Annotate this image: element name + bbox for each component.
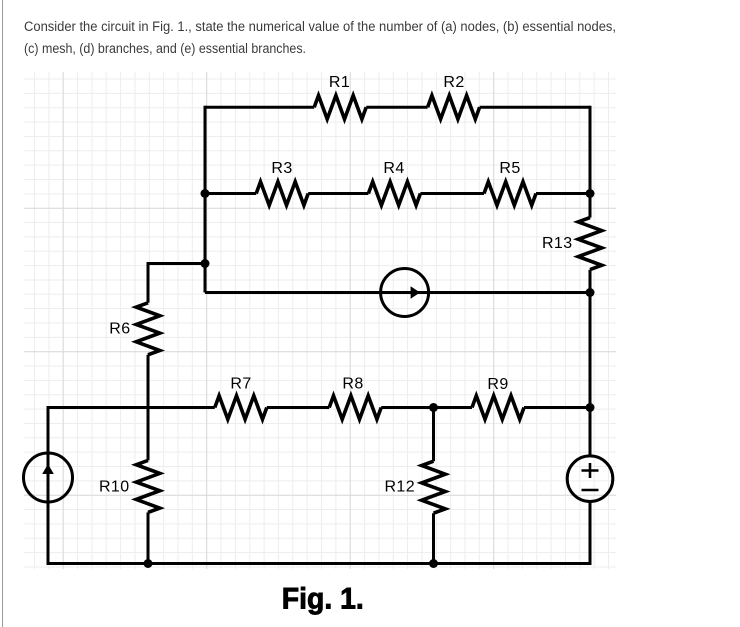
resistor R5 [484,160,536,205]
resistor R8 [329,376,381,420]
svg-text:R10: R10 [99,479,130,496]
wire R7 row segment 1 [48,406,215,409]
wire row2 segment 3 [420,192,484,195]
node at right / R7 row [586,403,595,412]
page left border [2,0,3,627]
wire bottom rail [47,562,592,565]
svg-text:R4: R4 [383,160,404,177]
node at right / current-source row [586,288,595,297]
wire right vertical mid [589,270,592,456]
svg-text:R2: R2 [443,74,464,91]
node at R12 / R7 row [429,403,438,412]
svg-text:R6: R6 [109,321,130,338]
resistor R3 [256,160,308,205]
wire row2 segment 2 [308,192,368,195]
resistor R2 [428,74,480,119]
wire R6-R10 vertical [147,355,150,564]
node at right / row2 [586,189,595,198]
svg-text:R7: R7 [230,376,251,393]
wire top rail segment 1 [205,106,314,109]
wire top rail segment 3 [480,106,590,109]
wire right vertical upper [589,106,592,218]
resistor R4 [368,160,420,205]
node at R12 / bottom rail [429,559,438,568]
wire R7 row segment 2 [267,406,329,409]
wire R12 vertical [432,408,435,564]
svg-text:R8: R8 [342,376,363,393]
svg-text:R3: R3 [271,160,292,177]
svg-text:Fig. 1.: Fig. 1. [282,583,364,616]
wire right vertical lower [589,502,592,564]
wire current-source row [205,291,590,294]
wire stub to R6 branch [148,264,205,303]
current source I2 (bottom-left, arrow up) [24,453,73,502]
svg-text:R13: R13 [542,235,573,252]
wire R7 row segment 3 [381,406,472,409]
resistor R10 [99,460,160,512]
svg-text:R1: R1 [329,74,350,91]
svg-text:R9: R9 [487,376,508,393]
problem text [0,0,740,64]
resistor R7 [215,376,267,420]
node at inner-left / R6 stub [201,259,210,268]
wire left inner vertical [204,106,207,293]
node at R10 / bottom rail [144,559,153,568]
resistor R13 [542,218,602,270]
resistor R6 [109,303,160,355]
voltage source V1 (right, plus top minus bottom) [567,456,613,502]
svg-text:R5: R5 [499,160,520,177]
current source I1 (middle, arrow right) [381,269,429,317]
wire left outer vertical [47,406,50,564]
svg-text:R12: R12 [384,479,415,496]
resistor R9 [472,376,524,419]
node at inner-left / row2 [201,189,210,198]
wire row2 segment 1 [205,192,256,195]
resistor R1 [314,74,366,119]
wire top rail segment 2 [366,106,427,109]
resistor R12 [384,461,445,513]
wire row2 segment 4 [536,192,590,195]
wire R7 row segment 4 [524,406,590,409]
